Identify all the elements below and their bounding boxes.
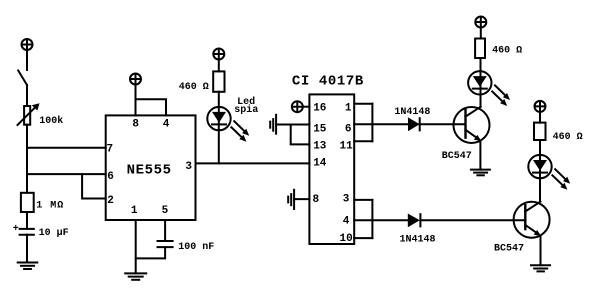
wire bracket pins 8-4 xyxy=(136,99,167,115)
LED spia D1 xyxy=(207,107,249,142)
svg-text:1 MΩ: 1 MΩ xyxy=(36,201,64,212)
wire node to pin 7 xyxy=(27,147,106,149)
svg-text:10: 10 xyxy=(340,233,353,245)
wire supply to resistor xyxy=(480,28,482,39)
svg-text:BC547: BC547 xyxy=(494,244,524,255)
wire diode to Q2 base xyxy=(420,219,525,221)
svg-text:BC547: BC547 xyxy=(442,151,472,162)
wire pin 10 stub xyxy=(354,237,372,239)
wire pin 11 stub xyxy=(354,140,372,142)
wire resistor through LED to collector xyxy=(480,58,482,107)
+V supply at pin 16 xyxy=(292,101,303,112)
wire emitter to ground xyxy=(540,236,542,266)
label Led spia xyxy=(234,96,258,116)
wire pin 3 stub xyxy=(354,199,372,201)
svg-text:10 µF: 10 µF xyxy=(39,228,69,239)
ground xyxy=(18,263,38,270)
svg-text:4: 4 xyxy=(343,215,350,227)
LED D4 xyxy=(468,71,510,106)
ground under Q2 xyxy=(531,265,550,271)
wire pin 1 to ground xyxy=(135,220,137,273)
wire pin 4 to diode D3 xyxy=(354,219,408,221)
wire resistor through LED to output node xyxy=(218,92,220,164)
svg-text:8: 8 xyxy=(132,119,139,131)
svg-text:460 Ω: 460 Ω xyxy=(179,82,209,93)
wire pot to 1 MΩ resistor xyxy=(26,125,28,193)
wire capacitor to pin-1 net xyxy=(136,247,165,258)
wire supply to resistor xyxy=(218,60,220,72)
wire node to pin 6 xyxy=(27,173,106,175)
svg-text:8: 8 xyxy=(313,194,320,206)
svg-text:15: 15 xyxy=(313,123,327,135)
svg-text:14: 14 xyxy=(313,158,327,170)
wire diode to Q1 base xyxy=(420,123,466,125)
wire pin 3 output to 4017 pin 14 xyxy=(196,162,310,164)
ground under NE555 xyxy=(125,273,146,279)
wire pin 6 to diode D2 xyxy=(354,123,408,125)
svg-text:1N4148: 1N4148 xyxy=(400,235,436,246)
resistor 460 Ω (Q1 branch) xyxy=(475,39,485,59)
wire pin 5 to capacitor xyxy=(164,220,166,241)
svg-text:7: 7 xyxy=(107,144,114,156)
wire resistor through LED to collector xyxy=(539,140,541,202)
wire emitter to ground xyxy=(479,141,481,170)
wire bracket pin 15 to pin 13 xyxy=(291,125,310,145)
wire supply to switch xyxy=(26,50,28,70)
svg-text:1N4148: 1N4148 xyxy=(394,107,430,118)
svg-text:13: 13 xyxy=(313,140,327,152)
transistor BC547 Q1 xyxy=(454,107,490,143)
svg-text:CI 4017B: CI 4017B xyxy=(292,73,364,89)
LED D5 xyxy=(528,155,570,190)
wire switch to potentiometer xyxy=(26,85,28,106)
resistor 460 Ω (Q2 branch) xyxy=(534,123,546,140)
capacitor 100 nF xyxy=(158,241,173,247)
ground at pin 8 (rotated) xyxy=(288,190,294,209)
svg-text:6: 6 xyxy=(345,123,352,135)
wire supply to resistor xyxy=(539,112,541,123)
wire supply to pin 8 xyxy=(135,85,137,116)
svg-text:1: 1 xyxy=(131,205,138,217)
+V supply top of Q1 branch xyxy=(475,17,486,28)
svg-text:1: 1 xyxy=(345,103,352,115)
svg-text:6: 6 xyxy=(107,171,114,183)
+V supply above LED resistor xyxy=(213,49,224,60)
capacitor 10 µF xyxy=(20,229,34,235)
wire resistor to capacitor xyxy=(26,212,28,229)
svg-text:spia: spia xyxy=(234,104,258,116)
svg-text:16: 16 xyxy=(313,103,326,115)
diode 1N4148 D3 xyxy=(408,214,421,228)
transistor BC547 Q2 xyxy=(514,202,550,238)
IC CD4017B U2 body xyxy=(309,94,354,244)
wire bracket pin 6 to pin 2 xyxy=(82,174,106,198)
diode 1N4148 D2 xyxy=(408,117,420,131)
wire supply to pin 16 xyxy=(303,106,309,108)
svg-text:+: + xyxy=(13,224,19,235)
ground at pin 15 (rotated) xyxy=(270,115,276,134)
svg-text:5: 5 xyxy=(162,205,169,217)
svg-text:3: 3 xyxy=(343,194,350,206)
wire ladder pins 3-4-10 xyxy=(371,200,373,238)
switch S1 blade xyxy=(18,71,27,86)
IC NE555 U1 body xyxy=(106,115,196,220)
svg-text:100 nF: 100 nF xyxy=(178,242,214,253)
svg-text:460 Ω: 460 Ω xyxy=(492,46,522,57)
wire ground to pin 15 xyxy=(276,124,309,126)
svg-text:2: 2 xyxy=(107,195,114,207)
svg-text:4: 4 xyxy=(163,119,170,131)
resistor 460 Ω (LED spia) xyxy=(213,71,224,91)
svg-text:3: 3 xyxy=(185,161,192,173)
svg-text:NE555: NE555 xyxy=(127,163,172,179)
svg-text:100k: 100k xyxy=(39,115,63,127)
+V supply top of Q2 branch xyxy=(535,101,546,112)
wire capacitor to ground xyxy=(26,235,28,263)
svg-text:460 Ω: 460 Ω xyxy=(553,132,583,143)
ground under Q1 xyxy=(471,170,490,176)
wire ladder pins 1-6-11 xyxy=(371,104,373,142)
+V supply top-left xyxy=(22,39,33,50)
potentiometer 100k xyxy=(18,103,40,125)
wire ground to pin 8 xyxy=(294,198,309,200)
resistor 1 MΩ xyxy=(21,193,34,212)
+V supply above NE555 xyxy=(130,74,141,85)
wire pin 1 stub xyxy=(354,103,372,105)
svg-text:11: 11 xyxy=(340,140,354,152)
